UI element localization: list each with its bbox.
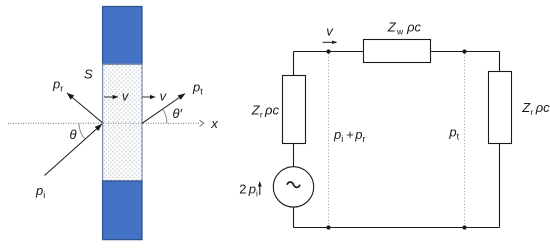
angle arc theta-prime [163,109,167,123]
AC source tilde [287,182,300,187]
svg-text:pi: pi [35,183,45,200]
circuit: impedance box Zr right [489,72,512,144]
velocity arrow v (right of layer) [142,96,155,98]
svg-text:pt: pt [192,79,203,96]
svg-text:v: v [160,89,168,104]
svg-text:x: x [210,116,218,131]
svg-text:v: v [326,23,334,38]
angle arc theta [79,123,85,139]
svg-text:pr: pr [354,127,365,144]
svg-text:pi: pi [333,127,343,144]
reflected wave arrow p_r [67,93,103,123]
svg-text:θ: θ [70,127,77,142]
circuit: top wire left segment [294,51,364,53]
node dashed line p_i+p_r [328,54,330,226]
velocity arrow (circuit) [323,41,337,43]
svg-text:θ′: θ′ [173,106,183,121]
node dot top-right [462,49,466,53]
svg-text:pr: pr [52,76,63,93]
node dot top-left [326,49,330,53]
transmitted wave arrow p_t [142,94,185,124]
svg-text:pt: pt [448,125,459,142]
svg-text:Zr ρc: Zr ρc [251,103,280,120]
svg-text:+: + [346,127,354,142]
circuit: right wire lower [499,144,501,228]
node dot bottom-right [462,225,466,229]
svg-text:Zw ρc: Zw ρc [387,20,422,37]
svg-text:Zr ρc: Zr ρc [521,100,550,117]
svg-text:S: S [84,67,93,82]
incident wave arrow p_i [45,124,102,175]
node dot bottom-left [326,225,330,229]
svg-text:pi: pi [248,181,258,198]
circuit: bottom wire [294,227,500,229]
AC source circle [273,167,313,207]
velocity arrow v (inside layer) [104,96,118,98]
circuit: right wire upper [499,52,501,72]
circuit: left wire lower [293,207,295,227]
circuit: left wire upper [293,52,295,76]
circuit: top wire right segment [431,51,500,53]
wall upper blue section [103,7,142,65]
x-axis dotted line [8,122,200,124]
wall lower blue section [103,181,142,240]
x-axis arrowhead [200,120,204,126]
source arrow up [259,182,261,195]
circuit: impedance box Zw [364,40,431,63]
porous middle section (stippled) [103,64,142,181]
circuit: left wire middle [293,144,295,167]
svg-text:2: 2 [239,181,246,196]
node dashed line p_t [464,54,466,226]
circuit: impedance box Zr left [283,76,306,144]
